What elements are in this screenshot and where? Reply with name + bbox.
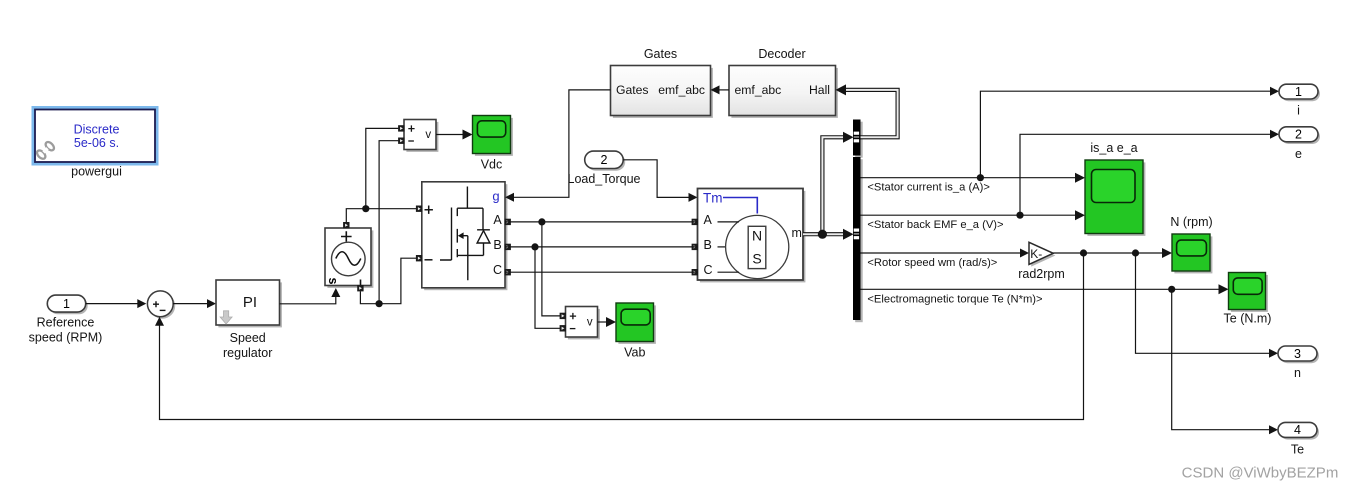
svg-text:s: s (326, 278, 340, 285)
outport 1 i (1279, 84, 1320, 101)
wire Load_Torque to motor Tm (623, 160, 697, 202)
outport 4 Te (1278, 422, 1319, 439)
junction node phase A (538, 218, 545, 225)
wire inport1 to sum (86, 299, 147, 308)
svg-text:v: v (425, 129, 431, 141)
wire stator current to outport 1 (980, 87, 1279, 178)
svg-text:1: 1 (1295, 85, 1302, 99)
svg-text:C: C (704, 263, 713, 277)
svg-text:Te (N.m): Te (N.m) (1224, 312, 1272, 326)
svg-text:m: m (792, 226, 802, 240)
Vdc voltage measurement block (398, 120, 438, 152)
junction node speed feedback (1080, 249, 1087, 256)
bus wire motor m to bus selector (803, 229, 854, 240)
wire junction to Vdc measurement minus (379, 141, 399, 304)
svg-text:emf_abc: emf_abc (658, 83, 705, 97)
inport 2 Load_Torque (585, 151, 626, 171)
svg-text:<Electromagnetic torque Te (N*: <Electromagnetic torque Te (N*m)> (867, 293, 1042, 305)
svg-text:Load_Torque: Load_Torque (568, 172, 641, 186)
scope is_a e_a (1085, 160, 1145, 236)
wire phase B to Vab measurement minus (535, 247, 563, 328)
label Speed regulator (223, 331, 272, 360)
wire sum to PI (173, 299, 216, 308)
svg-text:B: B (493, 238, 501, 252)
bus wire junction up to bus selector 1 (822, 132, 853, 234)
converter block (MOSFET bridge) (416, 182, 511, 290)
label Vdc (481, 158, 503, 172)
label Vab (624, 345, 645, 359)
Gates block (611, 66, 713, 118)
scope Te (N.m) (1229, 273, 1268, 312)
wire converter A to motor A (505, 221, 698, 223)
label Decoder (758, 47, 805, 61)
svg-text:rad2rpm: rad2rpm (1018, 267, 1065, 281)
svg-text:Tm: Tm (703, 190, 723, 205)
svg-text:3: 3 (1294, 347, 1301, 361)
junction node back EMF (1016, 212, 1023, 219)
svg-text:i: i (1297, 104, 1300, 118)
svg-text:emf_abc: emf_abc (735, 83, 782, 97)
svg-text:PI: PI (243, 294, 257, 311)
junction node source plus (362, 205, 369, 212)
wire Gates output to converter g (505, 90, 611, 202)
svg-text:regulator: regulator (223, 346, 272, 360)
wire back EMF to outport 2 (1020, 130, 1279, 215)
inport 1 Reference speed (RPM) (47, 295, 87, 314)
svg-text:A: A (704, 213, 713, 227)
sum block (147, 291, 175, 319)
svg-text:e: e (1295, 147, 1302, 161)
label Stator current (867, 182, 990, 194)
wire torque to outport 4 (1172, 289, 1278, 434)
label N (rpm) (1170, 215, 1212, 229)
junction node source minus (376, 300, 383, 307)
svg-text:N: N (752, 227, 762, 243)
svg-text:n: n (1294, 366, 1301, 380)
svg-text:Gates: Gates (644, 47, 677, 61)
scope N (rpm) (1172, 234, 1212, 273)
svg-text:2: 2 (600, 153, 607, 167)
controlled voltage source block (325, 222, 373, 291)
wire rotor speed to rad2rpm (861, 249, 1030, 258)
wire source plus to converter plus (346, 209, 422, 222)
svg-text:5e-06 s.: 5e-06 s. (74, 136, 119, 150)
watermark CSDN (1182, 465, 1339, 482)
svg-text:4: 4 (1294, 423, 1301, 437)
label Te (N.m) (1224, 312, 1272, 326)
svg-text:Te: Te (1291, 443, 1304, 457)
label Stator back EMF (867, 219, 1003, 231)
wire junction to Vdc measurement plus (366, 128, 400, 208)
label i (1297, 104, 1300, 118)
label Te (1291, 443, 1304, 457)
wire stator current to scope input 1 (861, 173, 1086, 183)
svg-text:is_a e_a: is_a e_a (1090, 141, 1137, 155)
wire Vdc measurement to Vdc scope (436, 130, 473, 140)
wire Vab measurement to Vab scope (598, 317, 617, 327)
wire rad2rpm to N scope (1053, 248, 1172, 258)
svg-text:<Stator current is_a (A)>: <Stator current is_a (A)> (867, 182, 990, 194)
svg-text:Gates: Gates (616, 83, 649, 97)
svg-text:C: C (493, 263, 502, 277)
label n (1294, 366, 1301, 380)
bus wire bus selector 1 to Decoder Hall (836, 84, 898, 137)
svg-text:CSDN @ViWbyBEZPm: CSDN @ViWbyBEZPm (1182, 465, 1339, 482)
wire source minus to converter minus (360, 258, 421, 304)
svg-text:Speed: Speed (230, 331, 266, 345)
svg-text:2: 2 (1295, 128, 1302, 142)
wire converter B to motor B (505, 246, 698, 248)
motor block (BLDC machine) (692, 189, 806, 283)
svg-text:A: A (493, 213, 502, 227)
label is_a e_a (1090, 141, 1137, 155)
wire PI to controlled voltage source s input (280, 288, 341, 304)
bus selector 2 (signals) (853, 157, 863, 322)
label Gates (644, 47, 677, 61)
scope Vdc (473, 116, 513, 156)
Vab voltage measurement block (560, 307, 600, 340)
junction node phase B (531, 243, 538, 250)
svg-text:<Stator back EMF e_a (V)>: <Stator back EMF e_a (V)> (867, 219, 1003, 231)
svg-text:K-: K- (1030, 247, 1042, 261)
powergui label (71, 165, 122, 179)
junction node stator current (977, 174, 984, 181)
svg-text:Reference: Reference (37, 316, 95, 330)
svg-text:Vdc: Vdc (481, 158, 503, 172)
junction node torque (1168, 286, 1175, 293)
svg-text:powergui: powergui (71, 165, 122, 179)
wire converter C to motor C (505, 271, 698, 273)
svg-text:Discrete: Discrete (74, 123, 120, 137)
label rad2rpm (1018, 267, 1065, 281)
bus selector 1 (Hall) (853, 120, 863, 158)
outport 3 n (1278, 346, 1319, 363)
gain rad2rpm (1029, 242, 1055, 266)
PI Speed regulator block (216, 280, 282, 327)
label Load_Torque (568, 172, 641, 186)
svg-text:speed (RPM): speed (RPM) (29, 331, 103, 345)
svg-text:Decoder: Decoder (758, 47, 805, 61)
wire speed feedback to sum (155, 253, 1084, 420)
powergui block (32, 106, 159, 166)
svg-text:Vab: Vab (624, 345, 645, 359)
wire speed to outport 3 (1136, 253, 1279, 358)
svg-text:Hall: Hall (809, 83, 830, 97)
Decoder block (729, 66, 838, 118)
bus junction node m (818, 230, 827, 239)
svg-text:v: v (587, 316, 593, 328)
wire phase A to Vab measurement plus (542, 222, 563, 316)
svg-text:B: B (704, 238, 712, 252)
label Reference speed (RPM) (29, 316, 103, 345)
label Electromagnetic torque (867, 293, 1042, 305)
wire Decoder emf_abc to Gates emf_abc (711, 85, 730, 94)
junction node speed outport (1132, 249, 1139, 256)
scope Vab (616, 303, 656, 344)
wire back EMF to scope input 2 (861, 210, 1086, 220)
svg-text:<Rotor speed wm (rad/s)>: <Rotor speed wm (rad/s)> (867, 257, 997, 269)
svg-text:g: g (492, 189, 499, 204)
wire torque to Te scope (861, 284, 1229, 294)
svg-text:1: 1 (63, 297, 70, 311)
svg-text:N (rpm): N (rpm) (1170, 215, 1212, 229)
label e (1295, 147, 1302, 161)
label Rotor speed (867, 257, 997, 269)
svg-text:S: S (752, 251, 761, 267)
outport 2 e (1279, 127, 1320, 144)
